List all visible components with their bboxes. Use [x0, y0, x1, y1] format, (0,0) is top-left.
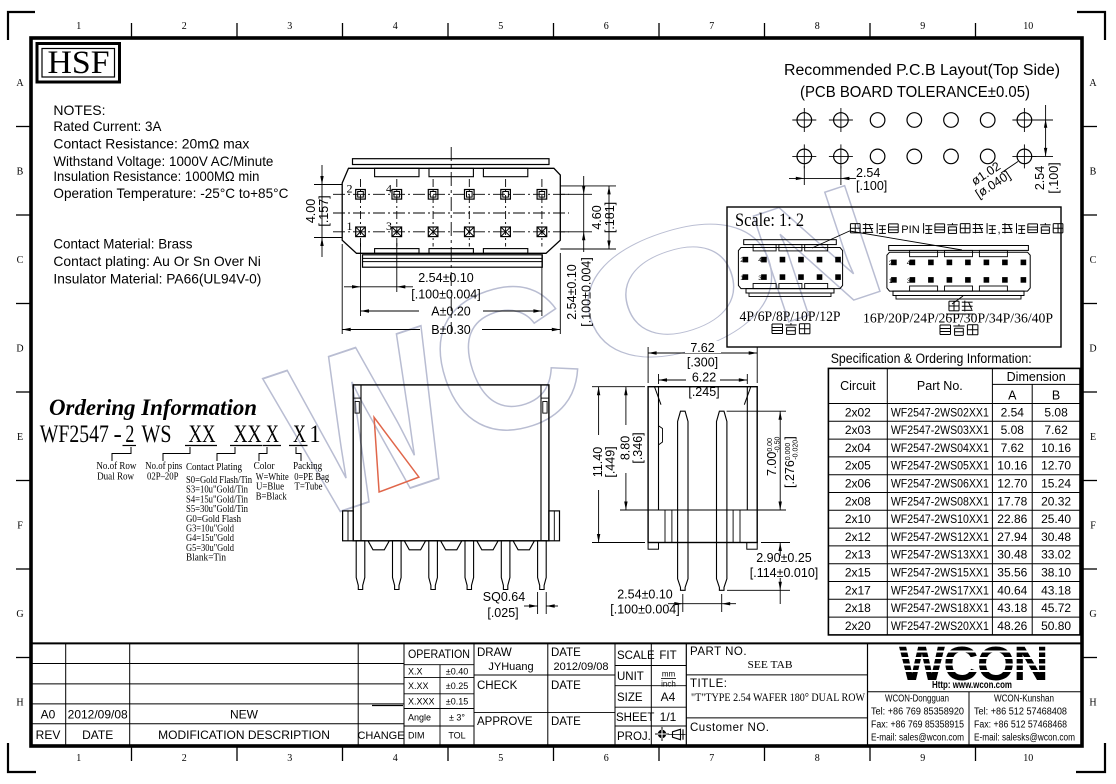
- row centerlines dash-dot: [333, 193, 569, 195]
- dimension 7.00 with tolerance: [727, 410, 786, 412]
- svg-text:mm: mm: [662, 670, 676, 679]
- svg-text:4: 4: [393, 753, 398, 764]
- svg-text:F: F: [1090, 520, 1096, 531]
- svg-text:inch: inch: [661, 680, 676, 689]
- svg-text:1: 1: [740, 275, 744, 282]
- corner trim mark bottom-left: [8, 743, 36, 772]
- svg-text:Color: Color: [254, 460, 275, 472]
- svg-text:WF2547-2WS08XX1: WF2547-2WS08XX1: [891, 494, 989, 508]
- svg-text:Dimension: Dimension: [1007, 370, 1066, 384]
- svg-text:27.94: 27.94: [997, 530, 1027, 544]
- svg-text:PART NO.: PART NO.: [690, 646, 747, 658]
- svg-text:Ordering Information: Ordering Information: [49, 395, 257, 420]
- svg-text:4P/6P/8P/10P/12P: 4P/6P/8P/10P/12P: [740, 309, 841, 325]
- dimension 8.80: [620, 509, 656, 511]
- svg-text:5.08: 5.08: [1044, 405, 1068, 419]
- svg-text:DATE: DATE: [551, 647, 581, 659]
- pcb dim 2.54 horizontal: [803, 166, 805, 185]
- svg-text:± 3°: ± 3°: [449, 712, 465, 722]
- svg-text:2: 2: [740, 257, 744, 264]
- svg-text:C: C: [1090, 255, 1097, 266]
- svg-text:X: X: [266, 421, 279, 448]
- svg-text:Fax: +86 512 57468468: Fax: +86 512 57468468: [974, 720, 1067, 731]
- dimension 2.90: [761, 542, 790, 544]
- svg-text:5: 5: [498, 753, 503, 764]
- operation tolerance block: [473, 643, 475, 744]
- svg-text:1: 1: [76, 21, 81, 32]
- svg-text:35.56: 35.56: [997, 566, 1027, 580]
- top view centerline vertical: [450, 147, 452, 334]
- svg-text:2x03: 2x03: [845, 423, 871, 437]
- svg-text:H: H: [16, 697, 23, 708]
- svg-text:20.32: 20.32: [1041, 494, 1071, 508]
- svg-text:Contact Material: Brass: Contact Material: Brass: [53, 235, 192, 251]
- top view bottom cap: [363, 255, 543, 267]
- dimension B±0.30: [341, 244, 343, 334]
- svg-text:Circuit: Circuit: [840, 379, 876, 393]
- svg-text:3: 3: [758, 275, 762, 282]
- svg-text:50.80: 50.80: [1041, 619, 1071, 633]
- svg-text:Insulation Resistance: 1000MΩ: Insulation Resistance: 1000MΩ min: [53, 168, 259, 184]
- svg-text:43.18: 43.18: [997, 601, 1027, 615]
- corner trim mark top-left: [8, 12, 35, 40]
- svg-text:±0.15: ±0.15: [446, 696, 468, 706]
- svg-text:2.54: 2.54: [856, 166, 880, 180]
- pcb hole dia label: [1001, 162, 1018, 174]
- svg-text:5: 5: [498, 21, 503, 32]
- dimension 7.62: [647, 347, 649, 383]
- svg-text:DATE: DATE: [82, 728, 113, 742]
- svg-text:WF2547-2WS06XX1: WF2547-2WS06XX1: [891, 477, 989, 491]
- svg-text:2x06: 2x06: [845, 477, 871, 491]
- front view latch details: [353, 397, 361, 399]
- svg-text:WF2547-2WS04XX1: WF2547-2WS04XX1: [891, 441, 989, 455]
- svg-text:7.62: 7.62: [690, 341, 714, 355]
- svg-text:2x08: 2x08: [845, 494, 871, 508]
- notch label: [952, 296, 963, 304]
- svg-text:T=Tube: T=Tube: [295, 482, 323, 493]
- svg-text:[.181]: [.181]: [603, 202, 617, 233]
- dimension 6.22: [658, 374, 660, 384]
- scale/unit/size/sheet/proj block: [650, 643, 652, 744]
- svg-text:9: 9: [920, 21, 925, 32]
- scale left connector icon: [744, 240, 837, 245]
- svg-text:2x05: 2x05: [845, 459, 871, 473]
- dimension A±0.20: [541, 255, 543, 316]
- scale right connector icon: [889, 246, 1029, 251]
- svg-text:3: 3: [287, 753, 292, 764]
- top view bottom slots: [375, 249, 419, 254]
- svg-text:NOTES:: NOTES:: [53, 102, 105, 118]
- svg-text:Tel: +86 769 85358920: Tel: +86 769 85358920: [871, 707, 964, 718]
- svg-text:B: B: [1052, 389, 1060, 403]
- svg-text:B±0.30: B±0.30: [431, 323, 471, 337]
- svg-text:±0.40: ±0.40: [446, 666, 468, 676]
- watermark orange triangle: [374, 417, 419, 492]
- svg-text:2.54: 2.54: [1033, 166, 1047, 190]
- svg-text:REV: REV: [36, 728, 61, 742]
- side view pins: [678, 411, 688, 590]
- svg-text:30.48: 30.48: [997, 548, 1027, 562]
- svg-text:Packing: Packing: [293, 460, 322, 472]
- svg-text:A: A: [16, 78, 24, 89]
- svg-text:X: X: [293, 421, 306, 448]
- svg-text:Http: www.wcon.com: Http: www.wcon.com: [932, 679, 1012, 691]
- svg-text:OPERATION: OPERATION: [408, 649, 470, 661]
- svg-text:45.72: 45.72: [1041, 601, 1071, 615]
- svg-text:Scale: 1: 2: Scale: 1: 2: [735, 210, 804, 231]
- svg-text:Fax: +86 769 85358915: Fax: +86 769 85358915: [871, 720, 964, 731]
- svg-text:E-mail: sales@wcon.com: E-mail: sales@wcon.com: [871, 733, 964, 744]
- svg-text:8: 8: [815, 21, 820, 32]
- svg-text:Tel: +86 512 57468408: Tel: +86 512 57468408: [974, 707, 1067, 718]
- svg-text:[.346]: [.346]: [631, 432, 645, 463]
- svg-text:[.300]: [.300]: [687, 356, 718, 370]
- front view right ear: [549, 511, 560, 541]
- svg-text:XX: XX: [189, 421, 216, 448]
- svg-text:WCON-Kunshan: WCON-Kunshan: [994, 694, 1054, 705]
- top view top slots: [375, 168, 419, 176]
- svg-text:G: G: [16, 609, 23, 620]
- svg-text:CHECK: CHECK: [477, 680, 518, 692]
- pin squares top row: [356, 190, 366, 200]
- svg-text:WF2547-2WS13XX1: WF2547-2WS13XX1: [891, 548, 989, 562]
- side view body: [648, 387, 757, 543]
- svg-text:7: 7: [709, 753, 714, 764]
- dimension 2.54 pin pitch bottom: [360, 240, 362, 316]
- svg-text:B: B: [1090, 166, 1097, 177]
- svg-text:APPROVE: APPROVE: [477, 716, 533, 728]
- svg-text:SCALE: SCALE: [617, 650, 655, 662]
- dimension 2.54 side pins: [682, 594, 684, 612]
- scale right connector pins: [892, 260, 897, 265]
- svg-text:2x04: 2x04: [845, 441, 871, 455]
- svg-text:TITLE:: TITLE:: [690, 678, 728, 690]
- svg-text:H: H: [1089, 697, 1096, 708]
- svg-text:[.100]: [.100]: [1047, 162, 1061, 193]
- svg-text:DIM: DIM: [408, 731, 425, 741]
- side view latch bump: [659, 426, 663, 445]
- svg-text:2x02: 2x02: [845, 405, 871, 419]
- svg-text:Blank=Tin: Blank=Tin: [186, 553, 226, 564]
- svg-text:2: 2: [889, 260, 893, 267]
- svg-text:2x20: 2x20: [845, 619, 871, 633]
- svg-text:X.XXX: X.XXX: [408, 696, 435, 706]
- svg-text:Insulator Material: PA66(UL94: Insulator Material: PA66(UL94V-0): [53, 270, 261, 286]
- svg-text:A±0.20: A±0.20: [431, 305, 471, 319]
- svg-text:40.64: 40.64: [997, 583, 1027, 597]
- svg-text:48.26: 48.26: [997, 619, 1027, 633]
- svg-text:DRAW: DRAW: [477, 647, 512, 659]
- svg-text:2012/09/08: 2012/09/08: [553, 661, 608, 673]
- svg-text:6: 6: [604, 21, 609, 32]
- svg-text:WF2547-2WS20XX1: WF2547-2WS20XX1: [891, 619, 989, 633]
- scale box: [727, 207, 1061, 347]
- svg-text:WF2547-2WS05XX1: WF2547-2WS05XX1: [891, 459, 989, 473]
- svg-text:2x13: 2x13: [845, 548, 871, 562]
- front view left ear: [343, 511, 354, 541]
- svg-text:10: 10: [1023, 21, 1033, 32]
- svg-text:DATE: DATE: [551, 680, 581, 692]
- svg-text:1/1: 1/1: [660, 710, 677, 724]
- dimension 4.60 right: [560, 185, 616, 187]
- svg-text:E: E: [1090, 432, 1096, 443]
- svg-text:A: A: [1008, 389, 1017, 403]
- svg-text:Part No.: Part No.: [917, 379, 963, 393]
- svg-text:TOL: TOL: [448, 731, 465, 741]
- front view pins: [356, 541, 365, 590]
- svg-text:(PCB BOARD TOLERANCE±0.05): (PCB BOARD TOLERANCE±0.05): [800, 84, 1030, 101]
- svg-text:XX: XX: [234, 421, 262, 448]
- svg-text:2x18: 2x18: [845, 601, 871, 615]
- svg-text:2.54±0.10: 2.54±0.10: [418, 271, 474, 285]
- svg-text:X.X: X.X: [408, 666, 423, 676]
- svg-text:[.100±0.004]: [.100±0.004]: [580, 257, 594, 326]
- pcb dim 2.54 vertical: [1031, 119, 1053, 121]
- svg-text:B=Black: B=Black: [256, 491, 287, 502]
- svg-text:FIT: FIT: [659, 650, 676, 662]
- svg-text:B: B: [17, 166, 24, 177]
- svg-text:F: F: [17, 520, 23, 531]
- svg-text:Dual Row: Dual Row: [97, 471, 134, 483]
- svg-text:2: 2: [182, 753, 187, 764]
- svg-text:WF2547-2WS03XX1: WF2547-2WS03XX1: [891, 423, 989, 437]
- svg-text:1: 1: [76, 753, 81, 764]
- draw/check/approve block: [547, 643, 549, 744]
- svg-text:D: D: [16, 343, 23, 354]
- svg-text:4: 4: [758, 257, 762, 264]
- pcb holes row 2: [797, 149, 812, 164]
- svg-text:-: -: [114, 421, 122, 448]
- svg-text:D: D: [1089, 343, 1096, 354]
- spec table grid: [828, 368, 1080, 635]
- svg-text:3: 3: [386, 219, 392, 233]
- svg-text:SIZE: SIZE: [617, 692, 643, 704]
- svg-text:2.90±0.25: 2.90±0.25: [756, 551, 812, 565]
- svg-text:2.54: 2.54: [1001, 405, 1025, 419]
- front view bottom zigzag: [368, 541, 534, 550]
- HSF logo box: [37, 44, 120, 83]
- scale note leader lines: [812, 231, 850, 248]
- svg-text:Specification & Ordering In: Specification & Ordering Information:: [831, 351, 1032, 366]
- side view feet: [648, 543, 658, 550]
- wcon logo: [899, 637, 1048, 691]
- svg-text:4: 4: [393, 21, 398, 32]
- svg-text:SHEET: SHEET: [616, 712, 654, 724]
- svg-text:SQ0.64: SQ0.64: [483, 590, 525, 604]
- svg-text:2x17: 2x17: [845, 583, 871, 597]
- ordering leader lines: [112, 447, 131, 461]
- svg-text:Angle: Angle: [408, 712, 431, 722]
- svg-text:Recommended P.C.B Layout(Top: Recommended P.C.B Layout(Top Side): [784, 62, 1060, 79]
- svg-text:E-mail: salesks@wcon.com: E-mail: salesks@wcon.com: [974, 733, 1075, 744]
- svg-text:5.08: 5.08: [1001, 423, 1025, 437]
- svg-text:[.025]: [.025]: [487, 606, 518, 620]
- svg-text:10.16: 10.16: [1041, 441, 1071, 455]
- svg-text:12.70: 12.70: [1041, 459, 1071, 473]
- svg-text:12.70: 12.70: [997, 477, 1027, 491]
- svg-text:[.114±0.010]: [.114±0.010]: [750, 566, 819, 580]
- title block and revision table grid: [31, 642, 1082, 644]
- svg-text:2: 2: [347, 182, 353, 196]
- front view body: [353, 385, 549, 541]
- svg-text:9: 9: [920, 753, 925, 764]
- svg-text:A4: A4: [661, 690, 676, 704]
- svg-text:WF2547-2WS18XX1: WF2547-2WS18XX1: [891, 601, 989, 615]
- svg-text:Contact Plating: Contact Plating: [186, 461, 242, 473]
- svg-text:7.62: 7.62: [1044, 423, 1068, 437]
- svg-text:WF2547-2WS02XX1: WF2547-2WS02XX1: [891, 405, 989, 419]
- svg-text:2.54±0.10: 2.54±0.10: [565, 264, 579, 320]
- svg-text:HSF: HSF: [48, 45, 110, 81]
- pin column centerlines: [360, 179, 362, 247]
- svg-text:Operation Temperature: -25°C: Operation Temperature: -25°C to+85°C: [53, 185, 288, 201]
- svg-text:WF2547-2WS17XX1: WF2547-2WS17XX1: [891, 583, 989, 597]
- svg-text:WCON-Dongguan: WCON-Dongguan: [885, 694, 949, 705]
- svg-text:17.78: 17.78: [997, 494, 1027, 508]
- svg-text:NEW: NEW: [230, 708, 259, 722]
- svg-text:[.449]: [.449]: [604, 446, 618, 477]
- svg-text:E: E: [17, 432, 23, 443]
- svg-text:3: 3: [287, 21, 292, 32]
- svg-text:30.48: 30.48: [1041, 530, 1071, 544]
- svg-text:Contact plating: Au Or Sn: Contact plating: Au Or Sn Over Ni: [53, 253, 261, 269]
- svg-text:A: A: [1089, 78, 1097, 89]
- svg-text:,: ,: [998, 224, 1001, 236]
- svg-text:2: 2: [125, 421, 134, 448]
- svg-text:[.245]: [.245]: [688, 385, 719, 399]
- svg-text:4.00: 4.00: [304, 199, 318, 223]
- svg-text:X.XX: X.XX: [408, 681, 429, 691]
- svg-text:WF2547-2WS12XX1: WF2547-2WS12XX1: [891, 530, 989, 544]
- top view top cap: [353, 159, 550, 165]
- svg-text:[.100]: [.100]: [856, 179, 887, 193]
- svg-text:SEE TAB: SEE TAB: [748, 659, 793, 671]
- wcon contact info: [868, 691, 1083, 693]
- svg-text:10.16: 10.16: [997, 459, 1027, 473]
- svg-text:10: 10: [1023, 753, 1033, 764]
- svg-text:Contact Resistance: 20mΩ ma: Contact Resistance: 20mΩ max: [53, 135, 249, 151]
- svg-text:2012/09/08: 2012/09/08: [68, 708, 128, 722]
- dimension 2.54 row pitch right: [560, 193, 592, 195]
- svg-text:[.157]: [.157]: [317, 195, 331, 226]
- part no / title / customer block: [686, 674, 867, 676]
- svg-text:JYHuang: JYHuang: [488, 661, 533, 673]
- dimension 11.40: [592, 386, 645, 388]
- scale left connector pins: [743, 257, 748, 262]
- svg-text:15.24: 15.24: [1041, 477, 1071, 491]
- svg-text:WS: WS: [142, 421, 172, 448]
- svg-text:22.86: 22.86: [997, 512, 1027, 526]
- svg-text:Customer NO.: Customer NO.: [690, 722, 770, 734]
- svg-text:WF2547-2WS10XX1: WF2547-2WS10XX1: [891, 512, 989, 526]
- top view body outline: [342, 168, 560, 253]
- svg-text:[.100±0.004]: [.100±0.004]: [411, 288, 480, 302]
- svg-text:1: 1: [889, 278, 893, 285]
- svg-text:CHANGE: CHANGE: [357, 730, 404, 742]
- svg-text:43.18: 43.18: [1041, 583, 1071, 597]
- side view base internal lines: [664, 510, 666, 543]
- svg-text:[.100±0.004]: [.100±0.004]: [610, 603, 679, 617]
- corner trim mark top-right: [1077, 12, 1105, 40]
- underlines of variable fields: [123, 445, 137, 447]
- svg-text:1: 1: [347, 219, 353, 233]
- svg-text:4.60: 4.60: [590, 205, 604, 229]
- svg-text:2x15: 2x15: [845, 566, 871, 580]
- svg-text:2x12: 2x12: [845, 530, 871, 544]
- scale box chinese note: [850, 223, 1062, 236]
- svg-text:±0.25: ±0.25: [446, 681, 468, 691]
- svg-text:Withstand Voltage: 1000V AC/: Withstand Voltage: 1000V AC/Minute: [53, 153, 273, 169]
- svg-text:4: 4: [386, 182, 392, 196]
- zone ticks and labels: [131, 23, 133, 38]
- svg-text:25.40: 25.40: [1041, 512, 1071, 526]
- svg-text:33.02: 33.02: [1041, 548, 1071, 562]
- svg-text:UNIT: UNIT: [617, 671, 644, 683]
- svg-text:Rated Current: 3A: Rated Current: 3A: [53, 118, 162, 134]
- projection symbol: [655, 733, 669, 735]
- svg-text:DATE: DATE: [551, 716, 581, 728]
- svg-text:PROJ.: PROJ.: [617, 731, 651, 743]
- svg-text:02P–20P: 02P–20P: [147, 471, 179, 483]
- svg-text:C: C: [17, 255, 24, 266]
- svg-text:MODIFICATION DESCRIPTION: MODIFICATION DESCRIPTION: [158, 728, 330, 742]
- svg-text:1: 1: [310, 421, 321, 448]
- pin squares bottom row: [356, 227, 366, 237]
- svg-text:4: 4: [907, 260, 911, 267]
- svg-text:"T"TYPE 2.54 WAFER 180° DUAL R: "T"TYPE 2.54 WAFER 180° DUAL ROW: [691, 692, 865, 704]
- svg-text:2: 2: [182, 21, 187, 32]
- svg-text:8: 8: [815, 753, 820, 764]
- pcb holes row 1: [797, 113, 812, 128]
- svg-text:PIN: PIN: [901, 224, 919, 236]
- watermark WCON logo outline: [248, 282, 484, 566]
- svg-text:6: 6: [604, 753, 609, 764]
- svg-text:WF2547: WF2547: [40, 421, 109, 448]
- side view top bevels: [655, 387, 662, 405]
- corner trim mark bottom-right: [1076, 743, 1105, 772]
- svg-text:A0: A0: [41, 708, 56, 722]
- svg-text:2.54±0.10: 2.54±0.10: [617, 588, 673, 602]
- svg-text:6.22: 6.22: [692, 371, 716, 385]
- svg-text:3: 3: [907, 278, 911, 285]
- svg-text:38.10: 38.10: [1041, 566, 1071, 580]
- svg-text:WF2547-2WS15XX1: WF2547-2WS15XX1: [891, 566, 989, 580]
- svg-text:7.62: 7.62: [1001, 441, 1025, 455]
- dimension 4.00 left: [314, 184, 342, 186]
- svg-text:7: 7: [709, 21, 714, 32]
- svg-text:2x10: 2x10: [845, 512, 871, 526]
- svg-text:16P/20P/24P/26P/30P/34P/36/40P: 16P/20P/24P/26P/30P/34P/36/40P: [863, 312, 1053, 327]
- svg-text:G: G: [1089, 609, 1096, 620]
